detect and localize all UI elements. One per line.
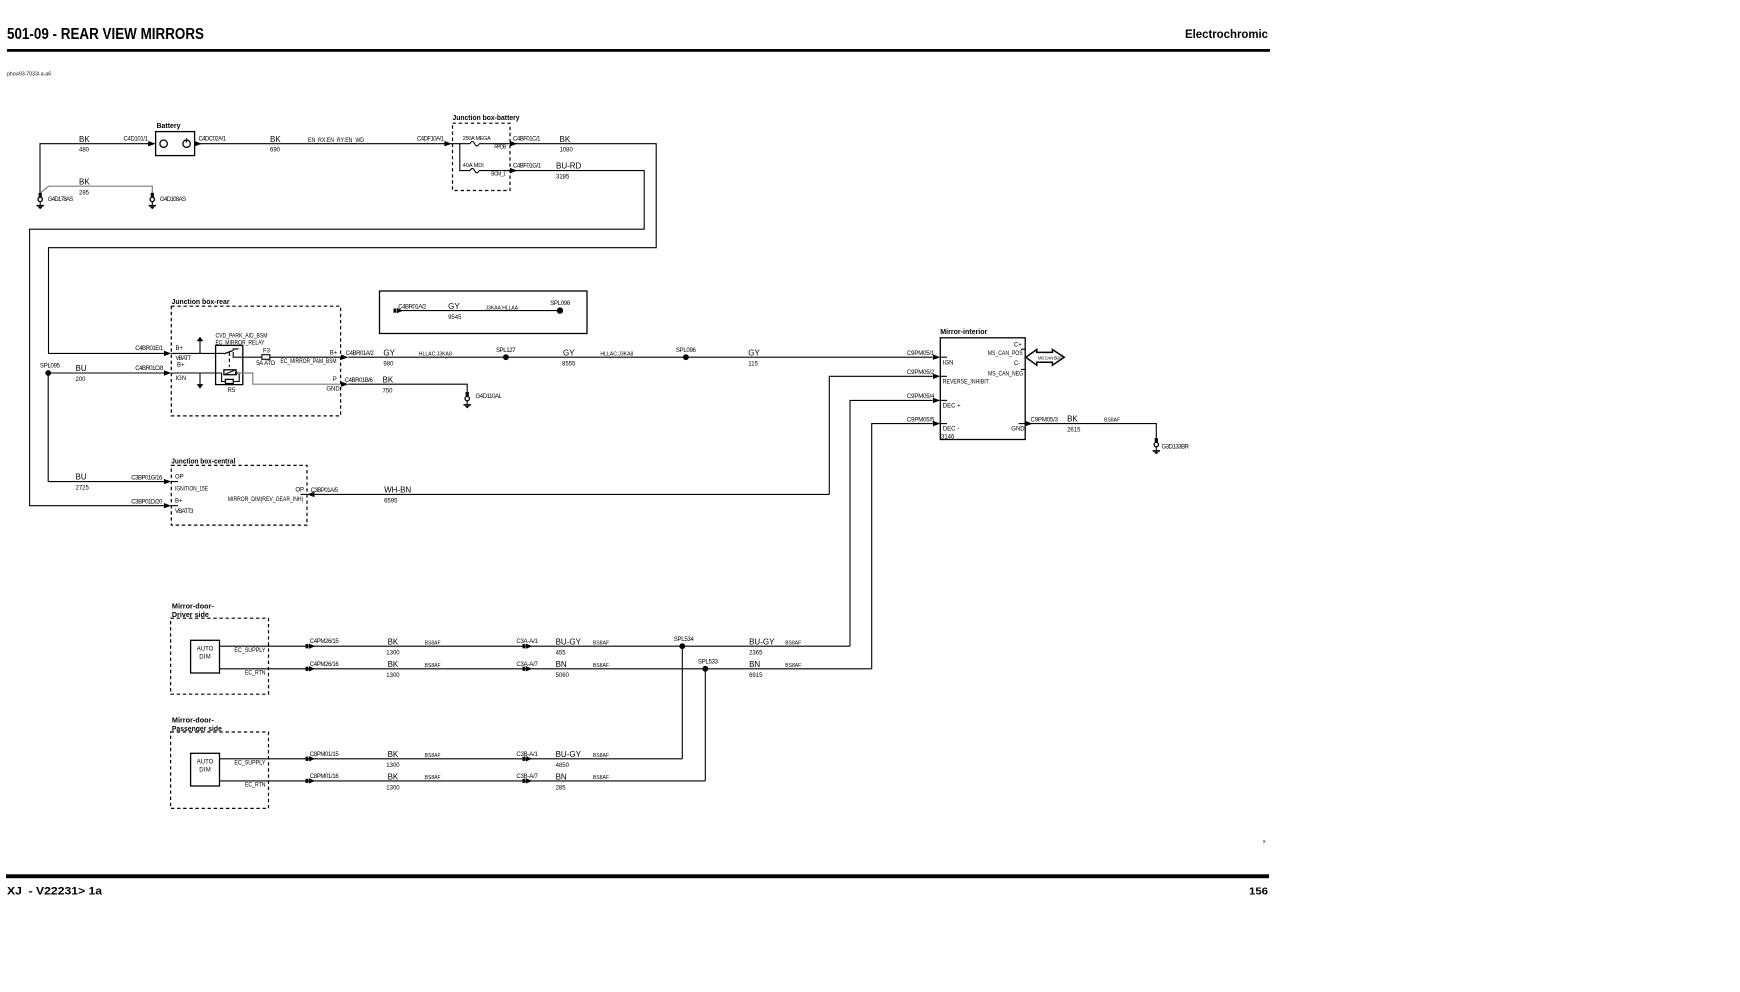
- pin C+: [1014, 342, 1025, 349]
- svg-text:3285: 3285: [556, 174, 570, 180]
- svg-text:BS8AF: BS8AF: [425, 663, 441, 669]
- wire internal IGN to relay coil: [171, 372, 221, 374]
- bus arrow down: [197, 373, 204, 389]
- svg-text:480: 480: [79, 148, 90, 154]
- wire BK 750 to ground: [348, 375, 467, 394]
- mirror-interior: [940, 329, 1025, 439]
- svg-text:VBATT: VBATT: [176, 356, 192, 362]
- connector C3BP01D/20 arrow pin B+ VBATT3: [131, 499, 194, 516]
- svg-text:115: 115: [748, 361, 758, 367]
- svg-text:6595: 6595: [384, 499, 398, 505]
- svg-text:DEC +: DEC +: [943, 403, 961, 409]
- connector C9PM05/5 arrow pin DEC -: [933, 421, 959, 441]
- fuse 250A MEGA RPDB: [452, 136, 510, 150]
- wire BU 2725 to IGNITION_15E: [48, 373, 165, 491]
- svg-text:750: 750: [383, 388, 394, 394]
- wire BU 200 to IGN: [48, 364, 165, 383]
- svg-text:Mirror-door-: Mirror-door-: [172, 604, 215, 611]
- svg-text:BS8AF: BS8AF: [593, 663, 609, 669]
- header rule: [7, 49, 1270, 52]
- connector C4PM26/16 inline: [306, 666, 316, 671]
- pin MS_CAN_POS: [988, 351, 1023, 357]
- splice SPL533: [698, 659, 719, 671]
- wire DEC+ riser: [850, 394, 935, 646]
- svg-text:C9PM05/3: C9PM05/3: [1031, 417, 1059, 423]
- wire BU-RD 3285 loop to left bus: [30, 162, 645, 506]
- junction box-central: [171, 458, 307, 525]
- svg-text:CVD_PARK_AID_BSM: CVD_PARK_AID_BSM: [216, 334, 268, 340]
- svg-text:SPL533: SPL533: [698, 659, 719, 665]
- svg-text:1080: 1080: [560, 148, 574, 154]
- wire BK 690 battery to junction box-battery: [195, 135, 452, 154]
- svg-text:BS8AF: BS8AF: [785, 663, 801, 669]
- svg-text:DIM: DIM: [199, 767, 211, 773]
- svg-text:980: 980: [383, 361, 394, 367]
- svg-text:GY: GY: [563, 348, 575, 357]
- svg-text:SPL096: SPL096: [550, 301, 571, 307]
- svg-text:J3KAA:HLLAA: J3KAA:HLLAA: [486, 305, 519, 311]
- svg-text:GY: GY: [748, 348, 760, 357]
- svg-text:Electrochromic: Electrochromic: [1185, 27, 1268, 41]
- svg-text:C9PM05/5: C9PM05/5: [907, 417, 935, 423]
- svg-text:BU-GY: BU-GY: [556, 750, 582, 759]
- svg-text:EC_RTN: EC_RTN: [245, 670, 266, 676]
- svg-text:RPDB: RPDB: [494, 144, 507, 150]
- svg-text:BU-RD: BU-RD: [556, 162, 582, 171]
- ground G4D108AS: [149, 193, 186, 209]
- wire BK 1300 / BU-GY 455 / BU-GY 2365 driver supply: [220, 638, 851, 657]
- svg-text:C8PM01/16: C8PM01/16: [310, 774, 340, 780]
- svg-text:C4BR01A/2: C4BR01A/2: [346, 351, 375, 357]
- wire BK 1300 / BN 5060 / BN 6915 driver return: [220, 660, 872, 679]
- svg-text:BCM_1: BCM_1: [491, 172, 506, 178]
- svg-text:BK: BK: [1067, 415, 1078, 424]
- connector C4D101/1 arrow: [148, 141, 155, 146]
- svg-text:40A MDI: 40A MDI: [463, 163, 484, 169]
- svg-text:C4BF01G/1: C4BF01G/1: [513, 163, 542, 169]
- wire WH-BN 6595: [307, 486, 829, 505]
- svg-text:4850: 4850: [556, 763, 570, 769]
- svg-text:G4D178AS: G4D178AS: [48, 197, 74, 203]
- svg-text:SPL096: SPL096: [676, 348, 697, 354]
- svg-text:C4BR01C/8: C4BR01C/8: [135, 366, 164, 372]
- svg-text:455: 455: [556, 651, 567, 657]
- svg-text:BK: BK: [383, 375, 394, 384]
- svg-text:IGN: IGN: [176, 376, 187, 382]
- svg-text:EC_RTN: EC_RTN: [245, 783, 266, 789]
- svg-text:R5: R5: [228, 388, 236, 394]
- splice SPL127: [496, 348, 516, 360]
- svg-text:B+: B+: [177, 363, 185, 369]
- svg-text:BS8AF: BS8AF: [425, 775, 441, 781]
- svg-text:C4DC02A/1: C4DC02A/1: [199, 137, 227, 143]
- pin EC_SUPPLY driver: [234, 648, 265, 654]
- connector C4BF01G/1 arrow: [510, 163, 542, 173]
- svg-text:C4DF10A/1: C4DF10A/1: [417, 137, 445, 143]
- connector C4DF10A/1 arrow: [444, 141, 451, 146]
- svg-text:501-09 - REAR VIEW MIRRORS: 501-09 - REAR VIEW MIRRORS: [7, 26, 204, 43]
- svg-text:C4BR01E/1: C4BR01E/1: [135, 346, 164, 352]
- tiny mark x: [1263, 839, 1266, 845]
- svg-text:phcw93-7033l-a-a6: phcw93-7033l-a-a6: [7, 72, 51, 78]
- pin EC_SUPPLY passenger: [234, 760, 265, 766]
- wire BK 1080 loop to left bus: [49, 135, 657, 354]
- connector C4BR01A/2 stub: [394, 304, 427, 313]
- svg-text:1300: 1300: [386, 651, 400, 657]
- splice SPL096 node: [676, 348, 697, 360]
- svg-text:BN: BN: [749, 660, 760, 669]
- svg-text:BN: BN: [556, 772, 567, 781]
- svg-text:C4BR01B/6: C4BR01B/6: [345, 378, 374, 384]
- svg-text:OP: OP: [295, 488, 304, 494]
- ground G4D178AS: [37, 193, 74, 209]
- svg-text:C9PM05/1: C9PM05/1: [907, 351, 935, 357]
- connector C3B-A/1 inline: [523, 756, 533, 761]
- svg-text:DEC -: DEC -: [943, 427, 959, 433]
- svg-text:F3: F3: [263, 348, 271, 354]
- svg-text:BS8AF: BS8AF: [593, 753, 609, 759]
- connector C4BR01E/1 arrow pin B+ VBATT: [135, 346, 191, 362]
- junction box-battery: [453, 115, 520, 191]
- svg-text:BU: BU: [76, 472, 87, 481]
- svg-text:MS_CAN_POS: MS_CAN_POS: [988, 351, 1023, 357]
- svg-text:2725: 2725: [76, 485, 90, 491]
- page title: [7, 26, 204, 43]
- wire BK 1300 / BU-GY 4850 passenger supply: [220, 750, 683, 769]
- auto dim module passenger: [191, 753, 220, 786]
- svg-text:BK: BK: [388, 772, 399, 781]
- svg-text:IGN: IGN: [943, 361, 954, 367]
- fuse 40A MDI BCM_1: [460, 144, 510, 178]
- wire DEC- riser: [872, 417, 935, 668]
- connector C3BP01G/16 arrow pin OP IGNITION_15E: [131, 475, 208, 493]
- connector C4BR01A/2 arrow out: [341, 351, 374, 360]
- mirror-door driver side: [171, 604, 269, 695]
- svg-text:GY: GY: [448, 302, 460, 311]
- footer left text: [7, 886, 103, 898]
- svg-text:200: 200: [76, 377, 87, 383]
- svg-text:SPL127: SPL127: [496, 348, 516, 354]
- svg-text:BK: BK: [388, 750, 399, 759]
- pin GND output: [1011, 424, 1025, 433]
- wire REVERSE_INHIBIT from WH-BN riser: [829, 370, 935, 494]
- svg-text:SPL534: SPL534: [674, 637, 695, 643]
- relay R5 CVD_PARK_AID_BSM EC_MIRROR_RELAY: [216, 334, 268, 394]
- splice SPL096 (detail): [550, 301, 571, 314]
- svg-text:B+: B+: [176, 346, 184, 352]
- svg-text:BS8AF: BS8AF: [425, 753, 441, 759]
- auto dim module driver: [191, 640, 220, 673]
- svg-text:BK: BK: [79, 135, 90, 144]
- svg-text:BK: BK: [270, 135, 281, 144]
- connector C4DC02A/1 arrow: [195, 141, 202, 146]
- wire GY 980 / 8555 / 115 to mirror IGN: [348, 348, 935, 367]
- mirror-door passenger side: [171, 718, 269, 809]
- connector C8PM01/16 inline: [306, 778, 316, 783]
- pin EC_RTN driver: [245, 670, 266, 676]
- svg-text:BU-GY: BU-GY: [749, 638, 775, 647]
- wire BK 285 ground link: [41, 177, 152, 196]
- svg-text:Junction box-rear: Junction box-rear: [172, 299, 230, 306]
- svg-text:C3BP01G/16: C3BP01G/16: [131, 475, 163, 481]
- splice SPL534: [674, 637, 695, 649]
- svg-text:BS8AF: BS8AF: [785, 640, 801, 646]
- svg-text:AUTO: AUTO: [197, 759, 214, 765]
- page subtitle right: [1185, 27, 1268, 41]
- svg-text:C9PM05/2: C9PM05/2: [907, 370, 935, 376]
- svg-text:BS8AF: BS8AF: [593, 775, 609, 781]
- svg-text:BN: BN: [556, 660, 567, 669]
- bus arrow up: [197, 337, 204, 354]
- pin EC_RTN passenger: [245, 783, 266, 789]
- svg-text:Mirror-door-: Mirror-door-: [172, 718, 215, 725]
- connector C4PM26/15 inline: [306, 644, 316, 649]
- svg-text:1300: 1300: [386, 785, 400, 791]
- connector C9PM05/1 arrow pin IGN: [933, 355, 954, 367]
- svg-text:6915: 6915: [749, 673, 763, 679]
- svg-text:P: P: [333, 377, 337, 383]
- svg-text:MS_CAN_NEG: MS_CAN_NEG: [988, 372, 1023, 378]
- pin MS_CAN_NEG: [988, 372, 1023, 378]
- svg-text:EC_SUPPLY: EC_SUPPLY: [234, 760, 265, 766]
- svg-text:BS8AF: BS8AF: [1104, 417, 1120, 423]
- connector C4BR01B/6 arrow out: [341, 378, 373, 387]
- svg-text:EC_SUPPLY: EC_SUPPLY: [234, 648, 265, 654]
- wire SPL533 riser to passenger return: [704, 669, 706, 781]
- svg-text:SPL095: SPL095: [40, 364, 61, 370]
- svg-text:G4D108AS: G4D108AS: [160, 197, 186, 203]
- svg-text:8555: 8555: [562, 361, 576, 367]
- svg-text:BS8AF: BS8AF: [425, 640, 441, 646]
- svg-text:WH-BN: WH-BN: [384, 486, 411, 495]
- wire GY 9545 J3KAA:HLLAA: [400, 302, 560, 321]
- connector C9PM05/4 arrow pin DEC +: [933, 398, 961, 410]
- svg-text:C3BP01D/20: C3BP01D/20: [131, 500, 163, 506]
- svg-text:MS CAN BUS: MS CAN BUS: [1038, 355, 1062, 360]
- battery: [156, 123, 195, 156]
- svg-text:5060: 5060: [556, 673, 570, 679]
- pin OP MIRROR_DIM(REV_GEAR_INH): [228, 488, 304, 503]
- svg-text:1300: 1300: [386, 763, 400, 769]
- svg-text:IGNITION_15E: IGNITION_15E: [175, 486, 208, 492]
- svg-text:C3BP01A/5: C3BP01A/5: [311, 488, 339, 494]
- MS CAN BUS arrow: [1026, 350, 1064, 366]
- connector C9PM05/3 arrow out: [1025, 417, 1058, 426]
- svg-text:AUTO: AUTO: [197, 646, 214, 652]
- wire internal B+ to relay: [171, 352, 215, 354]
- svg-text:C-: C-: [1014, 361, 1020, 367]
- svg-text:B+: B+: [175, 499, 183, 505]
- svg-text:250A MEGA: 250A MEGA: [463, 136, 491, 142]
- svg-text:BS8AF: BS8AF: [593, 640, 609, 646]
- svg-text:BK: BK: [388, 638, 399, 647]
- svg-text:B+: B+: [330, 351, 338, 357]
- splice SPL095: [40, 364, 61, 376]
- svg-text:C4PM26/15: C4PM26/15: [310, 639, 340, 645]
- fuse F3 5A ATO: [243, 348, 341, 367]
- svg-text:C4BF01C/1: C4BF01C/1: [513, 137, 541, 143]
- svg-text:BU-GY: BU-GY: [556, 638, 582, 647]
- drawing code: [7, 72, 51, 78]
- connector C3BP01A/5 arrow out: [301, 488, 339, 497]
- pin C-: [1014, 361, 1025, 369]
- svg-text:Junction box-central: Junction box-central: [171, 458, 235, 465]
- svg-text:EN_RX:EN_RY:EN_WD: EN_RX:EN_RY:EN_WD: [308, 138, 365, 144]
- wire relay coil to GND pin (gray): [236, 373, 340, 384]
- svg-text:OP: OP: [175, 475, 184, 481]
- svg-text:HLLAC:J3KA8: HLLAC:J3KA8: [419, 352, 452, 358]
- svg-text:C+: C+: [1014, 342, 1022, 348]
- svg-text:Mirror-interior: Mirror-interior: [940, 329, 987, 336]
- svg-text:1300: 1300: [386, 673, 400, 679]
- svg-text:BK: BK: [79, 177, 90, 186]
- svg-text:G4D110AL: G4D110AL: [476, 394, 503, 400]
- svg-text:Junction box-battery: Junction box-battery: [453, 115, 520, 122]
- ground G3D133BR: [1153, 438, 1190, 454]
- svg-text:C9PM05/4: C9PM05/4: [907, 394, 935, 400]
- svg-text:C4PM26/16: C4PM26/16: [310, 662, 340, 668]
- svg-text:C8PM01/15: C8PM01/15: [310, 752, 340, 758]
- svg-text:BK: BK: [388, 660, 399, 669]
- splice detail box: [380, 291, 588, 334]
- svg-text:3146: 3146: [941, 435, 955, 441]
- svg-text:GY: GY: [383, 348, 395, 357]
- svg-text:285: 285: [556, 785, 567, 791]
- svg-text:DIM: DIM: [199, 654, 211, 660]
- svg-text:9545: 9545: [448, 315, 462, 321]
- connector C4BF01C/1 arrow: [510, 137, 541, 147]
- svg-text:5A ATO: 5A ATO: [256, 361, 275, 367]
- svg-text:HLLAC:J3KA8: HLLAC:J3KA8: [600, 352, 633, 358]
- svg-text:2615: 2615: [1067, 428, 1081, 434]
- connector C3A-A/1 inline: [523, 644, 533, 649]
- svg-text:C4D101/1: C4D101/1: [124, 137, 149, 143]
- svg-text:XJ - V22231> 1a: XJ - V22231> 1a: [7, 886, 103, 898]
- svg-text:EC_MIRROR_PAM_BSM: EC_MIRROR_PAM_BSM: [281, 359, 337, 365]
- connector C9PM05/2 arrow pin REVERSE_INHIBIT: [933, 374, 989, 386]
- connector C8PM01/15 inline: [306, 756, 316, 761]
- svg-text:GND: GND: [1011, 427, 1025, 433]
- svg-text:REVERSE_INHIBIT: REVERSE_INHIBIT: [943, 379, 989, 385]
- junction box-rear: [171, 299, 340, 416]
- svg-text:2365: 2365: [749, 651, 763, 657]
- wire SPL534 riser to passenger supply: [681, 646, 683, 759]
- svg-text:Battery: Battery: [157, 123, 181, 130]
- footer rule: [6, 874, 1269, 878]
- wire BK 480 battery feed: [40, 135, 149, 193]
- wire BK 1300 / BN 285 passenger return: [220, 772, 706, 791]
- svg-text:GND: GND: [326, 386, 340, 392]
- svg-text:MIRROR_DIM(REV_GEAR_INH): MIRROR_DIM(REV_GEAR_INH): [228, 497, 303, 503]
- connector C3B-A/7 inline: [523, 778, 533, 783]
- svg-text:BK: BK: [560, 135, 571, 144]
- svg-text:690: 690: [270, 148, 281, 154]
- svg-text:BU: BU: [76, 364, 87, 373]
- svg-text:156: 156: [1249, 886, 1268, 898]
- svg-text:G3D133BR: G3D133BR: [1162, 444, 1190, 450]
- pin P GND labels: [326, 377, 340, 392]
- ground G4D110AL: [464, 392, 503, 408]
- page number: [1249, 886, 1268, 898]
- svg-text:285: 285: [79, 190, 90, 196]
- connector C3A-A/7 inline: [523, 666, 533, 671]
- connector C4BR01C/8 arrow pin B+ IGN: [135, 363, 186, 382]
- svg-text:C4BR01A/2: C4BR01A/2: [398, 304, 427, 310]
- wire BK 2615 BS8AF to ground: [1025, 415, 1156, 438]
- svg-text:VBATT3: VBATT3: [175, 509, 194, 515]
